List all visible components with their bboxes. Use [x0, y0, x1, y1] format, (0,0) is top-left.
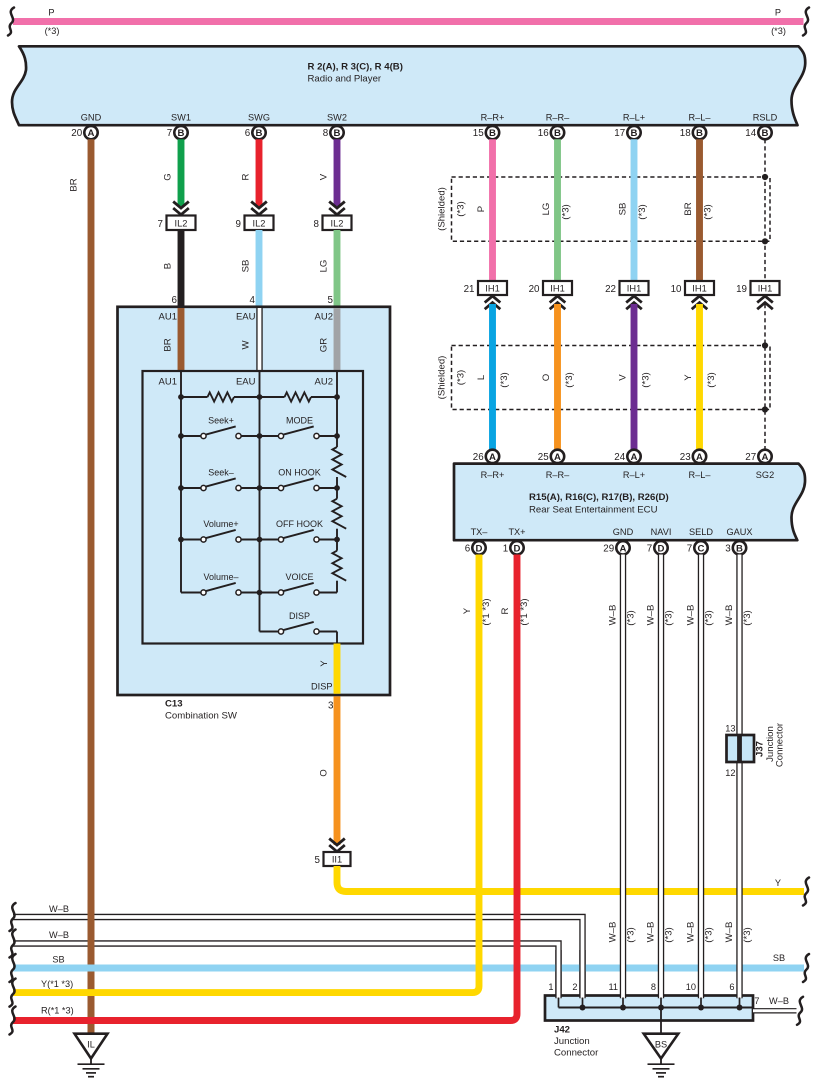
svg-text:25: 25 — [538, 452, 549, 463]
svg-text:1: 1 — [503, 543, 508, 554]
wire Y (IH1 to ECU 23) — [683, 304, 717, 450]
svg-text:SB: SB — [52, 955, 64, 965]
pin 16 (B) radio — [538, 126, 564, 139]
svg-text:AU1: AU1 — [159, 377, 177, 388]
pin 18 (B) radio — [680, 126, 706, 139]
svg-text:6: 6 — [729, 982, 734, 992]
svg-text:R–R+: R–R+ — [481, 470, 505, 480]
svg-text:(*3): (*3) — [742, 927, 753, 942]
svg-text:L: L — [476, 374, 487, 380]
svg-text:V: V — [618, 374, 629, 381]
C13 inner contact box — [143, 371, 364, 644]
svg-text:(*3): (*3) — [456, 201, 467, 216]
svg-text:14: 14 — [745, 128, 756, 139]
connector 22 IH1 — [605, 281, 648, 295]
svg-text:2: 2 — [572, 982, 577, 992]
svg-text:W–B: W–B — [686, 922, 697, 943]
svg-text:R–R+: R–R+ — [481, 113, 505, 123]
connector 8 IL2 — [314, 216, 352, 231]
svg-text:IH1: IH1 — [485, 284, 499, 294]
svg-text:SB: SB — [618, 203, 629, 216]
pin 27 (A) ECU top — [745, 450, 771, 463]
svg-text:O: O — [541, 374, 552, 381]
resistor EAU-AU2 — [260, 392, 338, 401]
wire SB (IL2 to C13 pin 4) — [241, 230, 260, 306]
svg-text:EAU: EAU — [236, 377, 256, 388]
svg-text:Volume+: Volume+ — [203, 519, 238, 529]
pin 25 (A) ECU top — [538, 450, 564, 463]
wire B (IL2 to C13 pin 6) — [163, 230, 182, 306]
svg-text:Y: Y — [683, 374, 694, 381]
pin 8 (B) radio — [323, 126, 344, 139]
svg-text:D: D — [476, 543, 483, 554]
ground BS — [644, 1008, 679, 1077]
svg-text:SG2: SG2 — [756, 470, 774, 480]
svg-text:IL2: IL2 — [253, 219, 266, 229]
svg-text:B: B — [178, 128, 185, 139]
svg-text:IH1: IH1 — [550, 284, 564, 294]
svg-text:Y: Y — [319, 660, 330, 667]
svg-text:Connector: Connector — [554, 1048, 599, 1059]
svg-text:SB: SB — [241, 260, 252, 273]
svg-text:Combination SW: Combination SW — [165, 711, 238, 722]
svg-text:7: 7 — [647, 543, 652, 554]
svg-text:A: A — [620, 543, 627, 554]
svg-text:RSLD: RSLD — [753, 113, 778, 123]
svg-text:II1: II1 — [332, 855, 342, 865]
svg-text:19: 19 — [736, 284, 747, 295]
switch Volume&#8211; — [181, 572, 260, 595]
svg-text:26: 26 — [473, 452, 484, 463]
svg-text:A: A — [489, 452, 496, 463]
svg-text:R–R–: R–R– — [546, 470, 570, 480]
svg-text:BR: BR — [163, 338, 174, 351]
svg-text:R: R — [241, 173, 252, 180]
pin 24 (A) ECU top — [614, 450, 640, 463]
wire P (+3) top — [13, 8, 804, 37]
wire break right W-B exit — [797, 997, 803, 1025]
svg-text:B: B — [554, 128, 561, 139]
svg-text:J42: J42 — [554, 1025, 570, 1036]
svg-text:21: 21 — [464, 284, 475, 295]
svg-text:A: A — [696, 452, 703, 463]
svg-text:7: 7 — [167, 128, 172, 139]
wire W inside C13 — [241, 308, 260, 371]
svg-text:W–B: W–B — [646, 922, 657, 943]
svg-text:Radio and Player: Radio and Player — [308, 74, 382, 85]
svg-text:SB: SB — [773, 953, 785, 963]
pin 7 (B) radio — [167, 126, 188, 139]
pin 7 (C) ECU bottom — [687, 541, 708, 554]
svg-text:IL2: IL2 — [175, 219, 188, 229]
wire break left Y — [10, 979, 16, 1007]
svg-text:W–B: W–B — [724, 605, 735, 626]
arrow into IH1 22 — [626, 296, 642, 309]
svg-text:3: 3 — [328, 701, 334, 712]
J42 pin numbers — [548, 982, 734, 992]
svg-text:11: 11 — [608, 982, 618, 992]
node EAU line — [259, 371, 261, 632]
svg-text:SW1: SW1 — [171, 113, 191, 123]
svg-text:R 2(A), R 3(C), R 4(B): R 2(A), R 3(C), R 4(B) — [308, 62, 403, 73]
svg-text:GND: GND — [613, 527, 634, 537]
wire R (SWG to IL2) — [241, 139, 267, 215]
wire W-B (GAUX to J42) — [724, 555, 753, 999]
svg-text:TX+: TX+ — [508, 527, 525, 537]
svg-text:20: 20 — [529, 284, 540, 295]
svg-text:LG: LG — [319, 260, 330, 273]
svg-text:B: B — [256, 128, 263, 139]
svg-text:R–L–: R–L– — [689, 470, 712, 480]
junction dots C13 — [178, 394, 340, 595]
svg-text:9: 9 — [236, 219, 241, 230]
rear seat entertainment ECU box R15/R16/R17/R26 — [454, 464, 805, 541]
svg-text:GAUX: GAUX — [726, 527, 752, 537]
switch Seek+ — [181, 416, 260, 439]
svg-text:(Shielded): (Shielded) — [437, 187, 448, 231]
junction connector J42 box — [545, 996, 753, 1059]
svg-text:(*3): (*3) — [742, 610, 753, 625]
svg-text:Y(*1 *3): Y(*1 *3) — [41, 979, 73, 989]
svg-text:B: B — [762, 128, 769, 139]
resistor AU2 (MODE/ON HOOK) — [332, 447, 346, 477]
svg-text:(*3): (*3) — [771, 26, 786, 36]
svg-text:22: 22 — [605, 284, 616, 295]
svg-text:IL2: IL2 — [331, 219, 344, 229]
svg-text:15: 15 — [473, 128, 484, 139]
shielded cable box 2 — [437, 346, 771, 410]
wire V (IH1 to ECU 24) — [618, 304, 652, 450]
svg-text:10: 10 — [671, 284, 682, 295]
svg-text:(*3): (*3) — [626, 610, 637, 625]
svg-text:(*3): (*3) — [564, 372, 575, 387]
svg-text:B: B — [489, 128, 496, 139]
svg-text:(*3): (*3) — [499, 372, 510, 387]
J42 internal bus — [559, 1005, 754, 1011]
svg-text:10: 10 — [686, 982, 696, 992]
arrow into IH1 19 — [757, 296, 773, 309]
wire W-B verticals into J42 pins 1,2 — [559, 950, 583, 998]
svg-text:W–B: W–B — [49, 904, 69, 914]
switch DISP — [260, 611, 338, 643]
combination SW C13 box — [118, 307, 391, 695]
svg-text:LG: LG — [541, 203, 552, 216]
pin 14 (B) radio — [745, 126, 771, 139]
svg-text:AU1: AU1 — [159, 312, 177, 323]
wire break left P — [8, 8, 14, 36]
wire Y (II1 to right) — [337, 866, 804, 892]
wire GR inside C13 — [319, 308, 338, 371]
svg-text:DISP: DISP — [289, 611, 310, 621]
node AU2 line (with resistors) — [336, 371, 338, 593]
svg-text:8: 8 — [314, 219, 320, 230]
svg-text:AU2: AU2 — [315, 312, 333, 323]
svg-text:IH1: IH1 — [692, 284, 706, 294]
svg-text:A: A — [554, 452, 561, 463]
svg-text:IH1: IH1 — [627, 284, 641, 294]
pin 7 (D) ECU bottom — [647, 541, 668, 554]
svg-text:(*3): (*3) — [704, 610, 715, 625]
svg-text:6: 6 — [245, 128, 251, 139]
connector 5 II1 — [315, 852, 351, 866]
svg-text:(*3): (*3) — [664, 610, 675, 625]
arrow into IH1 21 — [485, 296, 501, 309]
radio and player R2/R3/R4 box — [12, 46, 805, 125]
svg-text:R15(A), R16(C), R17(B), R26(D): R15(A), R16(C), R17(B), R26(D) — [529, 492, 669, 503]
wire break left W-B2 — [10, 930, 16, 958]
svg-text:Volume–: Volume– — [203, 572, 238, 582]
wire O (IH1 to ECU 25) — [541, 304, 575, 450]
svg-text:P: P — [476, 206, 487, 212]
node AU1 line — [180, 371, 182, 593]
switch ON HOOK — [260, 468, 338, 491]
wire break left SB — [10, 954, 16, 982]
svg-text:SW2: SW2 — [327, 113, 347, 123]
wire O (C13 pin 3 to II1) — [319, 696, 345, 851]
wire G (SW1 to IL2) — [163, 139, 189, 215]
wire SB row — [13, 953, 804, 968]
svg-text:VOICE: VOICE — [285, 572, 313, 582]
resistor AU2 (ON HOOK/OFF HOOK) — [332, 499, 346, 529]
svg-text:B: B — [334, 128, 341, 139]
svg-text:A: A — [88, 128, 95, 139]
svg-text:17: 17 — [614, 128, 625, 139]
svg-text:G: G — [163, 173, 174, 180]
svg-text:1: 1 — [548, 982, 553, 992]
pin 20 (A) radio — [71, 126, 97, 139]
svg-text:GR: GR — [319, 338, 330, 352]
svg-text:Seek+: Seek+ — [208, 416, 234, 426]
svg-text:(*3): (*3) — [45, 26, 60, 36]
svg-text:R–L+: R–L+ — [623, 470, 645, 480]
wire W-B (NAVI to J42) — [646, 555, 675, 999]
switch OFF HOOK — [260, 519, 338, 542]
svg-text:(*3): (*3) — [664, 927, 675, 942]
ground IL — [75, 1034, 108, 1077]
connector 21 IH1 — [464, 281, 507, 295]
wire break left W-B1 — [10, 903, 16, 931]
wire RSLD shield drain (dashed) — [764, 139, 766, 282]
wire W-B (J42 pin 7 right exit) — [753, 996, 797, 1011]
wire P (R-R+ to IH1) — [476, 139, 493, 282]
svg-text:(*3): (*3) — [637, 204, 648, 219]
svg-text:ON HOOK: ON HOOK — [278, 468, 321, 478]
svg-text:D: D — [658, 543, 665, 554]
switch VOICE — [260, 572, 338, 595]
svg-text:MODE: MODE — [286, 416, 313, 426]
wire SB (R-L+ to IH1) — [618, 139, 649, 282]
pin 1 (D) ECU bottom — [503, 541, 524, 554]
svg-text:24: 24 — [614, 452, 625, 463]
svg-text:(Shielded): (Shielded) — [437, 356, 448, 400]
pin 6 (D) ECU bottom — [465, 541, 486, 554]
svg-text:O: O — [319, 769, 330, 776]
shield junction dots box1 — [762, 174, 768, 245]
switch Seek&#8211; — [181, 468, 260, 491]
wire BR inside C13 — [163, 308, 182, 371]
wire LG (IL2 to C13 pin 5) — [319, 230, 338, 306]
wire Y (TX- to left edge) — [13, 555, 492, 993]
connector 20 IH1 — [529, 281, 572, 295]
svg-text:C: C — [698, 543, 705, 554]
svg-text:Y: Y — [775, 878, 781, 888]
wire break left R — [10, 1007, 16, 1035]
svg-text:R–L+: R–L+ — [623, 113, 645, 123]
switch MODE — [260, 416, 338, 439]
svg-text:8: 8 — [323, 128, 329, 139]
wire BR (GND to IL ground) — [69, 139, 92, 1033]
svg-text:P: P — [48, 8, 54, 18]
svg-text:Rear Seat Entertainment ECU: Rear Seat Entertainment ECU — [529, 505, 658, 516]
svg-text:(*3): (*3) — [706, 372, 717, 387]
svg-text:W–B: W–B — [49, 930, 69, 940]
svg-text:DISP: DISP — [311, 682, 332, 692]
svg-text:(*3): (*3) — [626, 927, 637, 942]
wire break right P — [803, 8, 809, 36]
junction connector J37 — [725, 722, 785, 778]
label C13 Combination SW — [165, 699, 334, 722]
svg-text:R–L–: R–L– — [689, 113, 712, 123]
svg-text:IL: IL — [87, 1040, 95, 1050]
svg-text:W–B: W–B — [608, 605, 619, 626]
svg-text:20: 20 — [71, 128, 82, 139]
wire W-B row 2 (to J42 pin 1) — [13, 930, 559, 998]
connector 9 IL2 — [236, 216, 274, 231]
svg-text:16: 16 — [538, 128, 549, 139]
svg-text:AU2: AU2 — [315, 377, 333, 388]
svg-text:W–B: W–B — [646, 605, 657, 626]
svg-text:TX–: TX– — [471, 527, 489, 537]
svg-text:V: V — [319, 173, 330, 180]
arrow into IH1 10 — [692, 296, 708, 309]
wire W-B (GND to J42) — [608, 555, 637, 999]
pin 29 (A) ECU bottom — [603, 541, 629, 554]
svg-text:29: 29 — [603, 543, 614, 554]
svg-text:J37: J37 — [755, 741, 766, 757]
svg-text:B: B — [631, 128, 638, 139]
svg-text:4: 4 — [250, 295, 256, 306]
switch Volume+ — [181, 519, 260, 542]
wire SG2 shield drain (dashed) — [764, 304, 766, 450]
wire BR (R-L- to IH1) — [683, 139, 714, 282]
wire R (TX+ to left edge) — [13, 555, 530, 1021]
svg-text:Junction: Junction — [554, 1036, 590, 1047]
wire LG (R-R- to IH1) — [541, 139, 572, 282]
svg-text:R(*1 *3): R(*1 *3) — [41, 1006, 74, 1016]
svg-text:5: 5 — [328, 295, 334, 306]
svg-text:OFF HOOK: OFF HOOK — [276, 519, 323, 529]
arrow into IH1 20 — [550, 296, 566, 309]
svg-text:D: D — [514, 543, 521, 554]
pin 3 (B) ECU bottom — [725, 541, 746, 554]
wire L (IH1 to ECU 26) — [476, 304, 510, 450]
svg-text:EAU: EAU — [236, 312, 256, 323]
svg-text:(*3): (*3) — [703, 204, 714, 219]
wire V (SW2 to IL2) — [319, 139, 345, 215]
svg-text:A: A — [762, 452, 769, 463]
svg-text:W–B: W–B — [608, 922, 619, 943]
svg-text:7: 7 — [754, 996, 759, 1006]
svg-text:BR: BR — [683, 202, 694, 215]
connector 19 IH1 — [736, 281, 779, 295]
svg-text:Connector: Connector — [775, 722, 786, 767]
svg-text:C13: C13 — [165, 699, 183, 710]
svg-text:13: 13 — [725, 724, 735, 734]
pin 15 (B) radio — [473, 126, 499, 139]
svg-text:8: 8 — [651, 982, 656, 992]
svg-text:W–B: W–B — [686, 605, 697, 626]
svg-text:A: A — [631, 452, 638, 463]
svg-text:(*1 *3): (*1 *3) — [481, 598, 492, 625]
wire W-B row 1 (to J42 pin 2) — [13, 904, 583, 998]
svg-text:Y: Y — [462, 607, 473, 614]
svg-text:B: B — [736, 543, 743, 554]
svg-text:SWG: SWG — [248, 113, 270, 123]
svg-text:BR: BR — [69, 178, 80, 191]
pin 17 (B) radio — [614, 126, 640, 139]
svg-text:12: 12 — [725, 768, 735, 778]
resistor AU2 (OFF HOOK/VOICE) — [332, 551, 346, 581]
svg-text:5: 5 — [315, 855, 321, 866]
svg-text:7: 7 — [158, 219, 163, 230]
svg-text:W: W — [241, 340, 252, 350]
svg-text:IH1: IH1 — [758, 284, 772, 294]
svg-text:W–B: W–B — [769, 996, 789, 1006]
svg-text:6: 6 — [172, 295, 178, 306]
svg-text:SELD: SELD — [689, 527, 713, 537]
pin 26 (A) ECU top — [473, 450, 499, 463]
wire Y (DISP inside C13) — [311, 644, 337, 694]
wire BR lower segment — [88, 900, 95, 1034]
J42 internal wire stubs — [559, 998, 740, 1008]
svg-text:BS: BS — [655, 1040, 667, 1050]
svg-text:R: R — [500, 607, 511, 614]
wire break right SB — [803, 954, 809, 982]
pin 6 (B) radio — [245, 126, 266, 139]
svg-text:(*3): (*3) — [641, 372, 652, 387]
pin 23 (A) ECU top — [680, 450, 706, 463]
svg-text:23: 23 — [680, 452, 691, 463]
svg-text:Seek–: Seek– — [208, 468, 234, 478]
svg-text:6: 6 — [465, 543, 471, 554]
svg-text:3: 3 — [725, 543, 731, 554]
svg-text:NAVI: NAVI — [651, 527, 672, 537]
svg-text:(*1 *3): (*1 *3) — [519, 598, 530, 625]
svg-text:GND: GND — [81, 113, 102, 123]
svg-text:R–R–: R–R– — [546, 113, 570, 123]
svg-text:27: 27 — [745, 452, 756, 463]
wire break right Y — [803, 878, 809, 906]
svg-text:18: 18 — [680, 128, 691, 139]
wire W-B (SELD to J42) — [686, 555, 715, 999]
svg-text:B: B — [696, 128, 703, 139]
svg-text:(*3): (*3) — [456, 370, 467, 385]
svg-text:7: 7 — [687, 543, 692, 554]
resistor AU1-EAU — [181, 392, 260, 401]
connector 7 IL2 — [158, 216, 196, 231]
svg-text:(*3): (*3) — [561, 204, 572, 219]
shielded cable box 1 — [437, 177, 771, 241]
shield junction dots box2 — [762, 342, 768, 412]
svg-text:P: P — [775, 8, 781, 18]
svg-text:B: B — [163, 263, 174, 269]
connector 10 IH1 — [671, 281, 714, 295]
svg-text:W–B: W–B — [724, 922, 735, 943]
svg-text:(*3): (*3) — [704, 927, 715, 942]
